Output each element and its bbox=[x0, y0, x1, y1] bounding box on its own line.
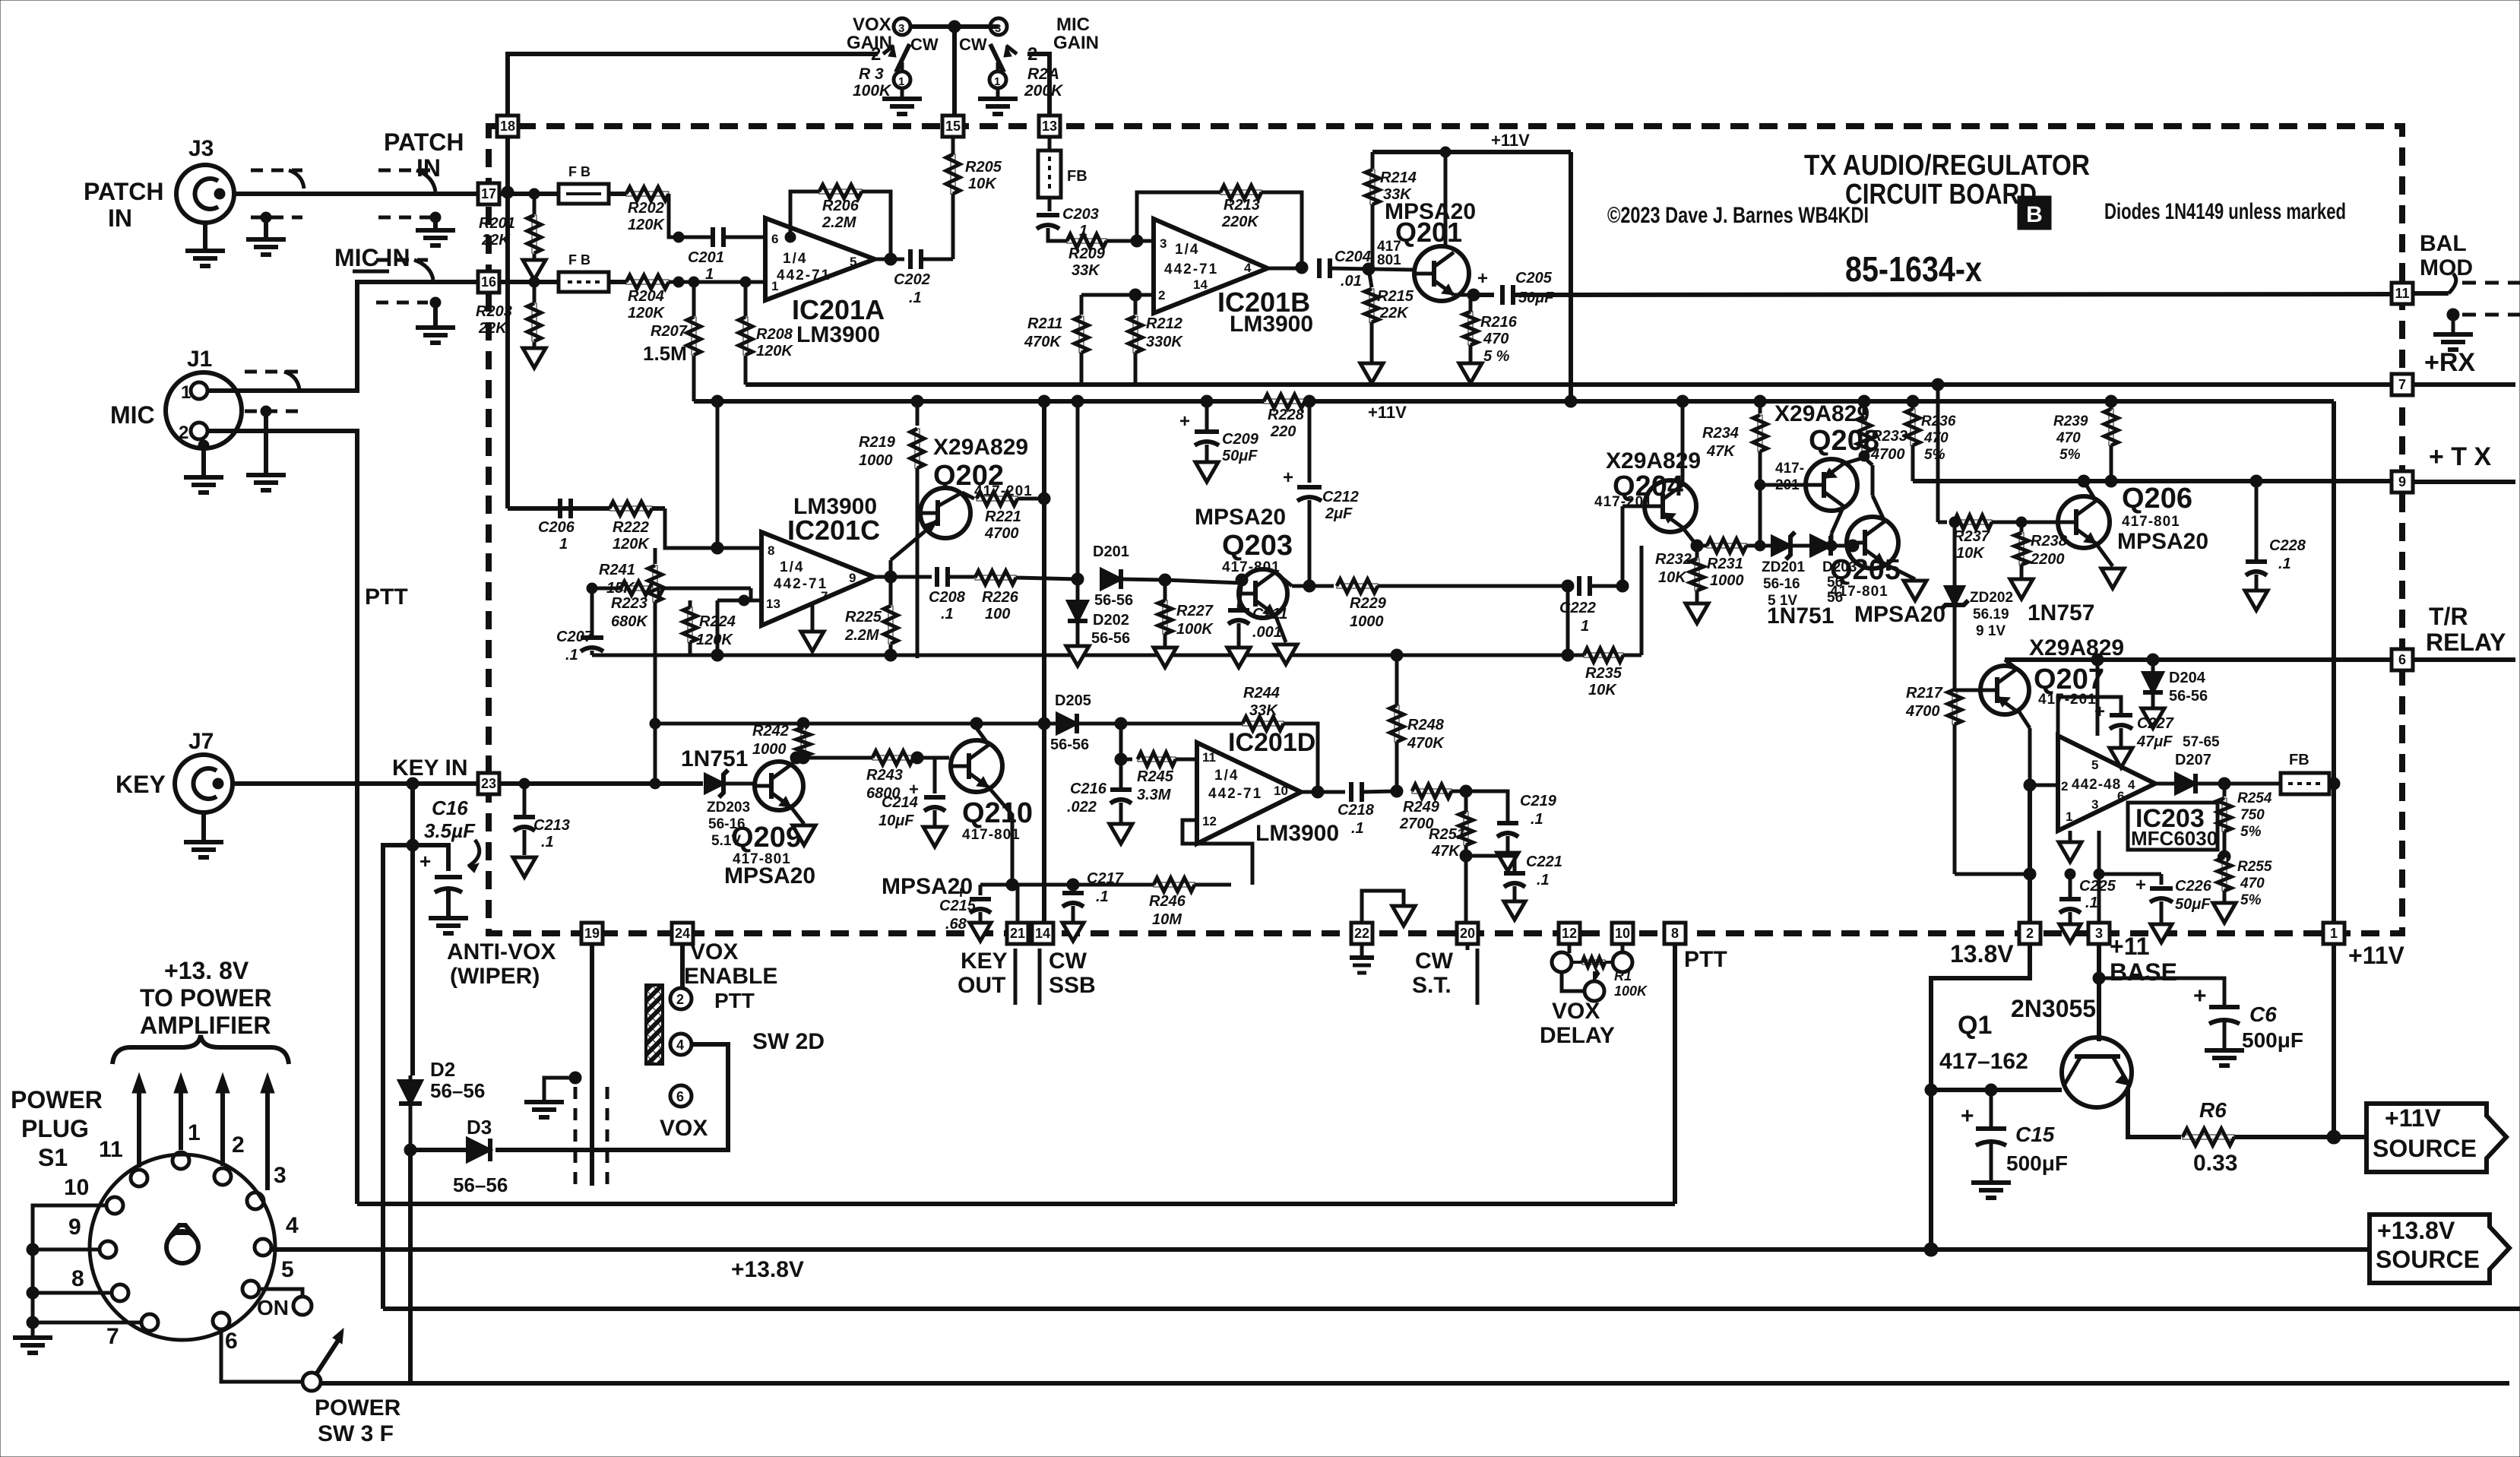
anti-vox wiper wire bbox=[590, 944, 594, 1078]
svg-text:56–56: 56–56 bbox=[453, 1174, 508, 1196]
pin 20 bbox=[1457, 923, 1478, 944]
svg-text:R245: R245 bbox=[1137, 768, 1174, 785]
ground under R216 bbox=[1469, 345, 1473, 363]
svg-text:1: 1 bbox=[2330, 926, 2338, 941]
svg-text:C203: C203 bbox=[1062, 206, 1099, 223]
capacitor C214 10uF bbox=[934, 757, 936, 759]
wire pin6 tail bbox=[2413, 657, 2515, 662]
capacitor C216 .022 bbox=[1119, 759, 1123, 787]
wire pin2 to Q1 collector bbox=[1931, 944, 2030, 1090]
capacitor C217 .1 bbox=[1067, 879, 1079, 891]
svg-text:D2: D2 bbox=[430, 1058, 455, 1081]
svg-text:Diodes 1N4149 unless marked: Diodes 1N4149 unless marked bbox=[2104, 199, 2346, 224]
svg-text:10: 10 bbox=[64, 1175, 89, 1200]
output IC201D bbox=[1301, 790, 1345, 794]
ground for mic shield 2 bbox=[416, 325, 455, 330]
junction R227 bbox=[1159, 574, 1171, 586]
svg-text:2N3055: 2N3055 bbox=[2011, 995, 2096, 1022]
shield on mic line near pin16 bbox=[376, 258, 428, 262]
svg-text:D204: D204 bbox=[2169, 670, 2206, 686]
ground under IC203 pin1 bbox=[2059, 842, 2082, 862]
op-amp IC201D bbox=[1197, 743, 1301, 844]
wire pin5 to TR line bbox=[2097, 736, 2098, 763]
black box B bbox=[2018, 196, 2051, 230]
svg-text:8: 8 bbox=[71, 1266, 84, 1291]
svg-text:D201: D201 bbox=[1093, 543, 1129, 560]
svg-text:S.T.: S.T. bbox=[1412, 973, 1452, 998]
ground under R227 bbox=[1154, 648, 1176, 667]
svg-text:R204: R204 bbox=[628, 288, 664, 305]
svg-text:1/4: 1/4 bbox=[783, 251, 807, 267]
ground under J1 bbox=[201, 448, 206, 475]
svg-text:PLUG: PLUG bbox=[21, 1115, 89, 1142]
wire R2A wiper to pin 13 bbox=[1027, 54, 1049, 116]
pin 15 bbox=[942, 116, 964, 137]
svg-text:417-201: 417-201 bbox=[1594, 494, 1653, 510]
junction R254 bbox=[2218, 778, 2230, 790]
op-amp IC201A bbox=[765, 218, 875, 300]
capacitor C221 .1 bbox=[1466, 856, 1515, 871]
svg-text:100: 100 bbox=[985, 606, 1010, 622]
svg-text:IC201C: IC201C bbox=[787, 515, 880, 546]
junction C16 tap bbox=[407, 839, 419, 851]
svg-text:R211: R211 bbox=[1027, 315, 1062, 332]
resistor R209 33K bbox=[1067, 239, 1106, 243]
svg-text:MPSA20: MPSA20 bbox=[1854, 602, 1945, 627]
svg-text:2: 2 bbox=[871, 44, 881, 65]
junction IC201A output bbox=[885, 253, 897, 265]
capacitor C213 .1 bbox=[519, 778, 530, 789]
wire Q205 emitter ground bbox=[1885, 564, 1915, 579]
svg-text:2200: 2200 bbox=[2030, 551, 2065, 568]
wire pin9 tail bbox=[2413, 480, 2515, 484]
svg-text:100K: 100K bbox=[1176, 621, 1214, 638]
wire +11V top feed bbox=[1372, 150, 1571, 154]
svg-text:442-48: 442-48 bbox=[2072, 777, 2121, 793]
resistor R232 10K bbox=[1695, 546, 1699, 558]
switch contact 4 bbox=[670, 1034, 692, 1055]
wire to pin 20 bbox=[1464, 856, 1468, 923]
svg-text:C214: C214 bbox=[882, 794, 918, 811]
op-amp IC201B bbox=[1154, 219, 1268, 313]
svg-text:9: 9 bbox=[849, 571, 856, 585]
svg-text:ZD202: ZD202 bbox=[1970, 590, 2013, 606]
ground under D202 bbox=[1066, 646, 1089, 666]
ground jumper above pin 22 bbox=[1362, 891, 1404, 923]
wire pin2 13.8 net vertical bbox=[2028, 785, 2032, 923]
resistor R214 33K bbox=[1371, 152, 1375, 169]
wire pin3 net bbox=[2097, 831, 2101, 923]
wire FB to C203 bbox=[1048, 198, 1052, 211]
resistor R229 1000 bbox=[1309, 584, 1334, 588]
resistor R206 2.2M bbox=[819, 189, 862, 194]
svg-text:500μF: 500μF bbox=[2006, 1151, 2068, 1175]
KEY bus line bbox=[383, 1307, 2520, 1311]
svg-text:4700: 4700 bbox=[984, 525, 1019, 542]
svg-text:Q206: Q206 bbox=[2122, 483, 2192, 515]
svg-text:C222: C222 bbox=[1559, 600, 1596, 616]
ground under C6 bbox=[2205, 1048, 2244, 1053]
wire Q1 collector line bbox=[1931, 1088, 2062, 1092]
svg-text:+RX: +RX bbox=[2424, 348, 2475, 377]
potentiometer R3 VOX GAIN bbox=[894, 18, 910, 35]
ferrite bead FB vertical bbox=[1038, 150, 1061, 198]
svg-text:LM3900: LM3900 bbox=[1230, 312, 1313, 337]
wire +11v feed down to rail bbox=[1569, 152, 1573, 401]
vox delay pot R1 bbox=[1552, 952, 1572, 972]
wire pin7 tail bbox=[2413, 382, 2515, 387]
ferrite bead FB right bbox=[2281, 773, 2329, 794]
svg-text:1000: 1000 bbox=[1350, 613, 1384, 630]
svg-text:GAIN: GAIN bbox=[1053, 33, 1099, 53]
svg-text:Q210: Q210 bbox=[962, 797, 1033, 829]
svg-text:SW 3 F: SW 3 F bbox=[318, 1421, 394, 1446]
wire SW2D loop bbox=[495, 1044, 728, 1150]
capacitor C208 .1 bbox=[935, 567, 939, 587]
svg-text:R212: R212 bbox=[1146, 315, 1182, 332]
svg-text:0.33: 0.33 bbox=[2193, 1151, 2237, 1176]
resistor R204 120K bbox=[626, 280, 669, 284]
svg-text:5%: 5% bbox=[2240, 824, 2262, 840]
ground under C219 bbox=[1497, 853, 1518, 871]
resistor R216 470 bbox=[1469, 295, 1473, 312]
junction C222 left bbox=[1562, 580, 1574, 592]
resistor R215 22K bbox=[1369, 269, 1372, 287]
svg-text:.1: .1 bbox=[1531, 811, 1543, 828]
svg-text:.1: .1 bbox=[2278, 556, 2291, 572]
resistor R223 680K line bbox=[592, 587, 751, 591]
svg-text:C217: C217 bbox=[1087, 870, 1124, 887]
pin 14 bbox=[1032, 923, 1053, 944]
svg-text:.022: .022 bbox=[1067, 799, 1097, 816]
wire vox div down bbox=[1566, 586, 1570, 655]
svg-text:56–56: 56–56 bbox=[430, 1079, 485, 1102]
svg-text:C208: C208 bbox=[929, 589, 966, 606]
svg-text:R246: R246 bbox=[1149, 893, 1186, 910]
ground for patch shield 1 bbox=[246, 237, 286, 242]
svg-text:200K: 200K bbox=[1024, 82, 1064, 100]
feedback R244 33K bbox=[1243, 721, 1284, 726]
svg-text:R242: R242 bbox=[752, 723, 789, 740]
svg-text:56-56: 56-56 bbox=[2169, 688, 2208, 705]
svg-text:1/4: 1/4 bbox=[780, 559, 804, 575]
pin 10 bbox=[1612, 923, 1633, 944]
wire Q205 collector up bbox=[1873, 496, 1885, 521]
resistor R228 220 in rail bbox=[1264, 399, 1305, 404]
svg-text:KEY IN: KEY IN bbox=[392, 755, 467, 781]
resistor R251 47K bbox=[1464, 791, 1468, 812]
svg-text:13: 13 bbox=[1042, 119, 1057, 134]
ground under R201 bbox=[533, 254, 537, 260]
wire Q207 collector to TR line bbox=[2005, 660, 2017, 669]
svg-text:21: 21 bbox=[1010, 926, 1025, 941]
potentiometer R2A MIC GAIN bbox=[990, 18, 1007, 35]
svg-text:.01: .01 bbox=[1341, 273, 1362, 290]
capacitor C206 1 bbox=[558, 499, 562, 518]
svg-text:.1: .1 bbox=[541, 834, 554, 850]
svg-text:750: 750 bbox=[2240, 807, 2265, 823]
svg-text:MFC6030: MFC6030 bbox=[2131, 827, 2218, 850]
svg-text:20: 20 bbox=[1460, 926, 1475, 941]
svg-text:C207: C207 bbox=[556, 629, 594, 645]
capacitor C207 .1 bbox=[590, 588, 594, 635]
capacitor C202 .1 bbox=[875, 258, 904, 261]
svg-text:MIC: MIC bbox=[110, 401, 155, 429]
pullup wire rail to D201 node bbox=[1076, 401, 1080, 579]
svg-text:BAL: BAL bbox=[2420, 231, 2467, 256]
svg-text:9 1V: 9 1V bbox=[1976, 623, 2006, 639]
svg-text:+: + bbox=[1179, 411, 1190, 432]
pin 17 bbox=[478, 183, 499, 204]
svg-text:MPSA20: MPSA20 bbox=[724, 863, 815, 888]
svg-text:1000: 1000 bbox=[859, 452, 893, 469]
ground under C227 bbox=[2110, 748, 2132, 768]
svg-text:2: 2 bbox=[2026, 926, 2034, 941]
wire Q210 collector bbox=[977, 728, 989, 745]
svg-text:VOX: VOX bbox=[690, 939, 738, 964]
transistor Q206 MPSA20 bbox=[2021, 521, 2058, 524]
svg-text:10: 10 bbox=[1274, 784, 1288, 798]
svg-text:+13.8V: +13.8V bbox=[2377, 1217, 2455, 1244]
svg-text:R244: R244 bbox=[1243, 685, 1280, 702]
svg-text:417-801: 417-801 bbox=[1222, 559, 1281, 575]
svg-text:CW: CW bbox=[910, 35, 939, 54]
svg-text:R214: R214 bbox=[1380, 169, 1417, 186]
svg-text:10K: 10K bbox=[968, 176, 997, 192]
svg-text:C204: C204 bbox=[1334, 249, 1371, 265]
wire pin13 down bbox=[1048, 137, 1052, 150]
resistor R203 22K bbox=[529, 277, 540, 287]
wire line y952 left end bbox=[650, 718, 660, 729]
wire pin1 to ground bbox=[2069, 831, 2072, 841]
wire KEY jog to bottom key line bbox=[383, 845, 413, 1309]
wire R205 chain from pin 15 bbox=[951, 137, 955, 259]
pin 8 bbox=[1664, 923, 1686, 944]
svg-text:14: 14 bbox=[1193, 277, 1208, 292]
svg-text:.68: .68 bbox=[945, 916, 967, 933]
svg-text:801: 801 bbox=[1377, 252, 1401, 268]
svg-text:3: 3 bbox=[274, 1163, 287, 1188]
resistor R201 22K bbox=[529, 188, 540, 199]
svg-text:6: 6 bbox=[225, 1329, 238, 1354]
ON contact circle bbox=[293, 1297, 312, 1315]
arrows to power amplifier bbox=[137, 1088, 141, 1167]
wire down to pin11 line bbox=[1119, 724, 1123, 759]
pin 19 bbox=[581, 923, 603, 944]
bar after CW ST bbox=[1476, 949, 1480, 1005]
svg-text:1: 1 bbox=[559, 536, 568, 553]
wire junction down to pin 15 bbox=[952, 27, 957, 116]
svg-text:100K: 100K bbox=[853, 82, 892, 100]
svg-text:R219: R219 bbox=[859, 434, 896, 451]
resistor R246 10M bbox=[1154, 882, 1195, 887]
svg-text:6: 6 bbox=[676, 1089, 684, 1104]
svg-text:R216: R216 bbox=[1480, 314, 1518, 331]
svg-text:C213: C213 bbox=[533, 817, 570, 834]
svg-text:C16: C16 bbox=[432, 797, 468, 819]
svg-text:PTT: PTT bbox=[714, 989, 755, 1012]
svg-text:.1: .1 bbox=[941, 606, 954, 622]
wire Q204 emitter bbox=[1683, 527, 1697, 546]
resistor R254 750 5% bbox=[2223, 784, 2227, 797]
svg-text:470K: 470K bbox=[1024, 334, 1062, 350]
+13.8V line from plug pin 4 bbox=[271, 1247, 2370, 1252]
svg-text:MPSA20: MPSA20 bbox=[1195, 505, 1286, 530]
junction R251 bbox=[1460, 785, 1472, 797]
svg-text:R207: R207 bbox=[651, 323, 688, 340]
resistor R208 120K bbox=[740, 277, 751, 287]
wire Q209 collector up bbox=[791, 758, 796, 765]
svg-text:+: + bbox=[2094, 702, 2105, 722]
resistor R224 120K bbox=[688, 607, 692, 642]
svg-text:3: 3 bbox=[1160, 236, 1167, 251]
wire J7 to pin 23 KEY IN bbox=[233, 781, 478, 786]
svg-text:2.2M: 2.2M bbox=[822, 214, 857, 231]
ferrite bead FB on patch line bbox=[559, 184, 609, 204]
svg-text:6: 6 bbox=[2398, 652, 2406, 667]
line y1164 bbox=[1012, 883, 1231, 887]
wire KEY down to C16 junction bbox=[410, 784, 415, 845]
capacitor C228 .1 bbox=[2250, 475, 2262, 487]
capacitor C212 2uF bbox=[1308, 401, 1312, 483]
svg-text:+: + bbox=[1477, 268, 1488, 289]
svg-text:R232: R232 bbox=[1655, 551, 1692, 568]
svg-text:57-65: 57-65 bbox=[2183, 734, 2220, 750]
svg-text:C206: C206 bbox=[538, 519, 575, 536]
svg-text:120K: 120K bbox=[696, 632, 733, 648]
line y952 D205 bbox=[655, 722, 1318, 726]
ground under J3 bbox=[203, 223, 207, 251]
svg-text:+: + bbox=[419, 850, 431, 873]
capacitor C209 50uF bbox=[1205, 401, 1209, 429]
svg-text:470K: 470K bbox=[1407, 735, 1445, 752]
svg-text:+11V: +11V bbox=[2385, 1104, 2442, 1132]
wire Q1 emitter to R6 bbox=[2128, 1087, 2181, 1137]
pin 23 bbox=[478, 773, 499, 794]
svg-text:R229: R229 bbox=[1350, 595, 1387, 612]
junction C215 bbox=[1006, 879, 1018, 891]
switch contact 2 PTT bbox=[670, 988, 692, 1009]
svg-text:442-71: 442-71 bbox=[774, 576, 828, 592]
ground under C228 bbox=[2245, 591, 2268, 610]
+11V rail bbox=[694, 399, 1271, 404]
svg-text:1: 1 bbox=[188, 1120, 201, 1145]
ground under C209 bbox=[1195, 462, 1218, 482]
wire base down into Q1 bbox=[2097, 978, 2101, 1041]
wire into C201 bbox=[669, 194, 711, 237]
wire vox gain feed from x668 vertical bbox=[508, 54, 878, 116]
resistor R241 15K bbox=[654, 548, 657, 564]
svg-text:5: 5 bbox=[281, 1257, 294, 1282]
svg-text:8: 8 bbox=[1671, 926, 1679, 941]
wire Q203 emitter ground bbox=[1275, 615, 1286, 642]
svg-text:22K: 22K bbox=[1379, 305, 1409, 321]
svg-text:CW: CW bbox=[1415, 949, 1454, 974]
wire KEY to D2 D3 string bbox=[410, 845, 415, 1075]
plug pins bbox=[131, 1170, 147, 1186]
svg-text:7: 7 bbox=[106, 1324, 119, 1349]
svg-text:8: 8 bbox=[768, 543, 774, 558]
svg-text:3: 3 bbox=[995, 22, 1001, 35]
svg-text:33K: 33K bbox=[1072, 262, 1100, 279]
svg-text:+ T X: + T X bbox=[2429, 442, 2492, 471]
svg-text:9: 9 bbox=[68, 1215, 81, 1240]
ground under R215 bbox=[1370, 322, 1374, 363]
svg-text:4700: 4700 bbox=[1905, 703, 1940, 720]
svg-text:470: 470 bbox=[2240, 876, 2265, 892]
svg-text:500μF: 500μF bbox=[2242, 1028, 2303, 1052]
svg-text:442-71: 442-71 bbox=[1208, 786, 1262, 802]
resistor R233 4700 bbox=[1863, 401, 1866, 415]
svg-text:R255: R255 bbox=[2237, 859, 2272, 875]
svg-text:R248: R248 bbox=[1407, 717, 1445, 733]
pin 13 bbox=[1039, 116, 1060, 137]
shield on patch line at x540 bbox=[378, 169, 430, 173]
ground under C214 bbox=[923, 827, 946, 847]
+RX line bbox=[746, 382, 2392, 387]
junction dots rail bbox=[911, 395, 923, 407]
svg-text:KEY: KEY bbox=[961, 949, 1008, 974]
pin 11 bbox=[2392, 283, 2413, 304]
svg-text:R208: R208 bbox=[756, 326, 793, 343]
diode D204 56-56 bbox=[2151, 660, 2155, 672]
junction collector load bbox=[1038, 493, 1050, 505]
resistor R205 10K on vertical bbox=[951, 154, 955, 194]
svg-text:CW: CW bbox=[1049, 949, 1087, 974]
svg-text:(WIPER): (WIPER) bbox=[450, 964, 540, 989]
resistor R234 47K bbox=[1759, 401, 1762, 413]
svg-text:Q201: Q201 bbox=[1395, 217, 1462, 248]
svg-text:TX AUDIO/REGULATOR: TX AUDIO/REGULATOR bbox=[1804, 150, 2090, 182]
zener ZD203 1N751 bbox=[705, 774, 723, 793]
svg-text:10K: 10K bbox=[1658, 569, 1687, 586]
capacitor C218 .1 bbox=[1349, 782, 1353, 802]
power switch SW3F bbox=[302, 1373, 321, 1391]
pin 21 bbox=[1007, 923, 1028, 944]
wire R209 to IC201B bbox=[1106, 239, 1154, 243]
capacitor C201 1 bbox=[711, 227, 715, 247]
svg-text:4: 4 bbox=[2128, 778, 2135, 792]
svg-text:C228: C228 bbox=[2269, 537, 2306, 554]
svg-text:1.5M: 1.5M bbox=[643, 342, 687, 365]
svg-text:F B: F B bbox=[568, 164, 590, 179]
pin 12 bbox=[1559, 923, 1580, 944]
svg-text:470: 470 bbox=[1483, 331, 1509, 347]
svg-text:+: + bbox=[1283, 467, 1293, 488]
svg-text:23: 23 bbox=[481, 776, 496, 791]
svg-text:1N751: 1N751 bbox=[681, 746, 748, 771]
junction KEY line bbox=[407, 778, 419, 790]
ground under C217 bbox=[1062, 923, 1084, 941]
resistor R236 470 5% bbox=[1911, 409, 1915, 445]
svg-text:R6: R6 bbox=[2199, 1098, 2227, 1122]
svg-text:18: 18 bbox=[500, 119, 515, 134]
T/R RELAY line bbox=[2005, 657, 2392, 662]
svg-text:100K: 100K bbox=[1614, 983, 1648, 999]
svg-text:1N757: 1N757 bbox=[2028, 600, 2094, 626]
diode D205 56-56 bbox=[1057, 714, 1077, 733]
svg-text:5: 5 bbox=[850, 255, 856, 269]
svg-text:J1: J1 bbox=[187, 347, 212, 372]
svg-text:IC201D: IC201D bbox=[1228, 728, 1315, 757]
svg-text:POWER: POWER bbox=[11, 1086, 103, 1113]
junction C221 bbox=[1460, 850, 1472, 862]
svg-text:16: 16 bbox=[481, 274, 496, 290]
transistor Q1 2N3055 bbox=[2062, 1037, 2132, 1107]
svg-text:R239: R239 bbox=[2053, 413, 2088, 429]
capacitor C16 3.5uF bbox=[413, 845, 448, 871]
resistor R255 470 5% bbox=[2222, 857, 2227, 891]
